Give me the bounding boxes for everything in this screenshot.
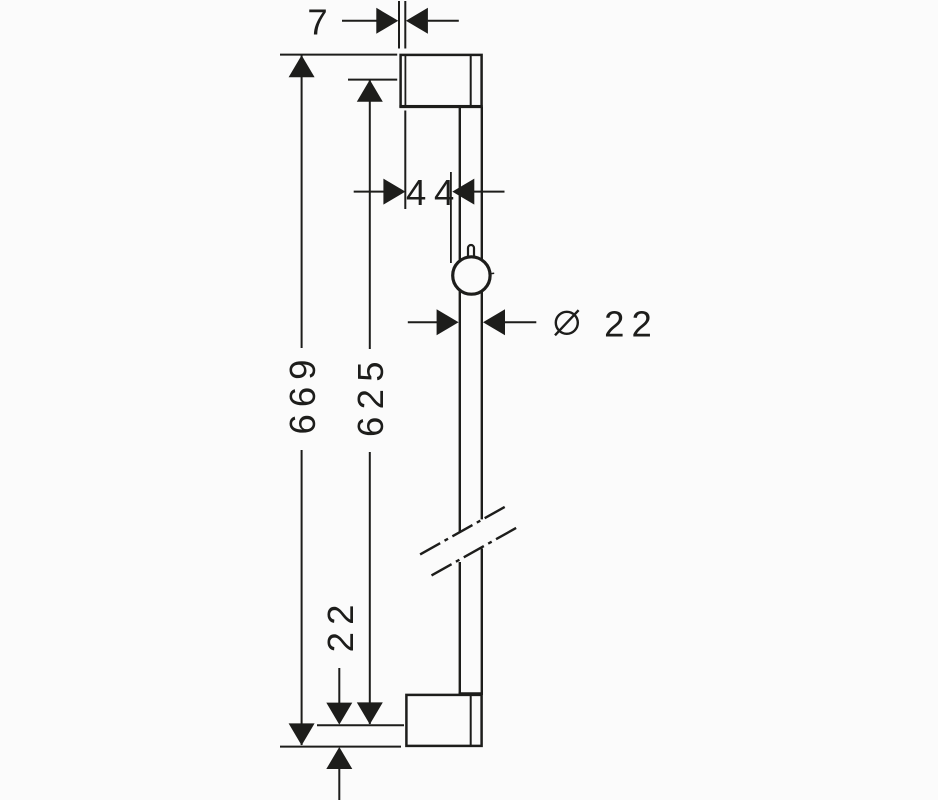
svg-text:2: 2 [631,303,651,344]
wall extension line right (7 dim) [404,1,406,49]
svg-text:4: 4 [406,172,426,213]
rail right edge upper [481,107,483,519]
break line lower diagonal [432,527,518,575]
svg-text:6: 6 [282,414,323,434]
rail left edge lower [459,562,461,695]
svg-text:5: 5 [350,361,391,381]
svg-text:9: 9 [282,360,323,380]
arrowhead 22 pointing up [326,747,352,769]
dim line 625 upper segment [369,80,371,349]
slider pin [468,245,474,258]
bottom bracket cap line [470,696,472,745]
extension line top of bracket (669) [280,54,397,56]
dim line 625 lower segment [369,452,371,724]
slider knob circle [453,257,490,294]
arrowhead 44 pointing right [383,179,405,205]
label 22 rotated [320,605,361,653]
arrowhead 7 pointing right [376,8,398,34]
extension line below top bracket (44 dim, wall face) [404,111,406,210]
svg-text:2: 2 [604,303,624,344]
rail right edge lower [481,549,483,696]
dim line 669 lower segment [301,450,303,745]
diameter symbol circle [556,312,578,334]
top bracket bottom thick edge [399,105,482,108]
extension line top of rail (625) [348,79,397,81]
svg-text:6: 6 [282,387,323,407]
rail left edge upper [459,107,461,533]
top bracket wall plate line [404,56,406,105]
svg-text:2: 2 [320,632,361,652]
extension line slider edge (44 dim) [450,172,452,263]
diameter symbol slash [555,310,579,335]
slider knob right tick [491,272,494,274]
svg-text:2: 2 [350,389,391,409]
extension line bracket bottom (669/22) [280,746,401,748]
arrowhead dia22 pointing right [437,309,459,335]
svg-text:7: 7 [307,2,327,43]
dim diameter 22 left tail [408,321,437,323]
bottom bracket body [406,695,481,746]
arrowhead dia22 pointing left [483,309,505,335]
arrowhead 44 pointing left [452,179,474,205]
top bracket cap line [470,56,472,105]
arrowhead 22 pointing down [326,703,352,725]
dim line 669 upper segment [301,55,303,348]
dim 44 right tail [474,191,505,193]
wall extension line left (7 dim) [398,1,400,49]
label 625 rotated [350,361,391,437]
dim 44 left tail [354,191,384,193]
extension line rail bottom end (625/22) [317,724,404,726]
top bracket body [401,55,482,106]
dim diameter 22 right tail [505,321,537,323]
arrowhead 669 top up [289,55,315,77]
dim 22 tail below [338,769,340,800]
arrowhead 669 bottom down [289,723,315,745]
svg-text:6: 6 [350,417,391,437]
dim 22 line above arrow [338,668,340,703]
label 669 rotated [282,360,323,435]
rail bottom cap [459,692,483,694]
dim 7 right tail [428,20,459,22]
break line upper diagonal [420,506,506,554]
arrowhead 7 pointing left [406,8,428,34]
arrowhead 625 top up [357,80,383,102]
arrowhead 625 bottom down [357,702,383,724]
svg-text:4: 4 [434,172,454,213]
dim 7 left tail [342,20,377,22]
svg-text:2: 2 [320,605,361,625]
